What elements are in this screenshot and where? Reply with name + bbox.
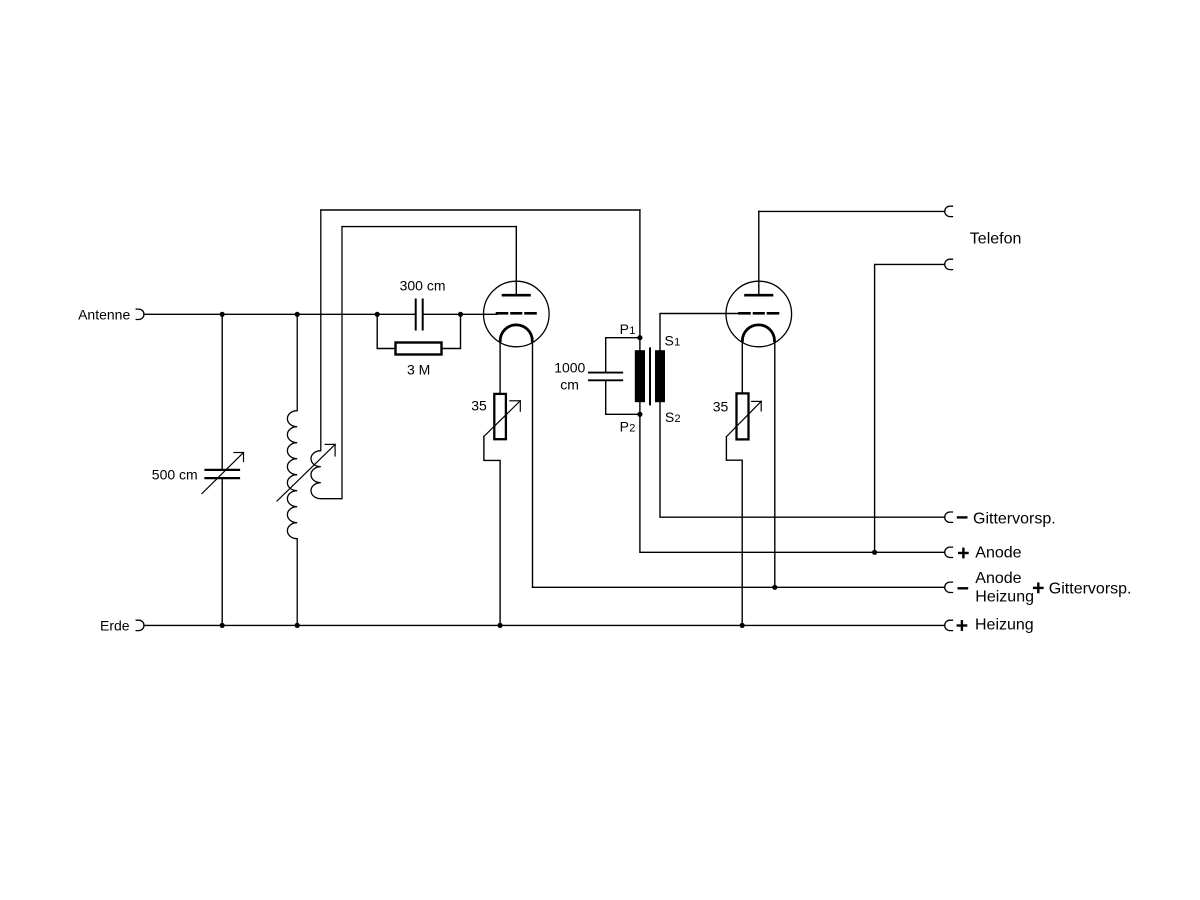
svg-text:Heizung: Heizung — [975, 617, 1034, 634]
triode V1 grid dashes — [497, 312, 536, 315]
triode V1 cathode arc — [500, 325, 532, 341]
terminal Antenne — [136, 309, 144, 319]
node junction ground / rheostat2 — [740, 623, 745, 628]
svg-text:S: S — [665, 409, 674, 425]
svg-text:35: 35 — [471, 397, 487, 413]
terminal Telefon top — [945, 206, 953, 216]
wire 1000cm upper branch to P1 — [606, 338, 640, 372]
wire secondary top lead to tube2 grid — [660, 314, 740, 351]
svg-text:1: 1 — [674, 336, 680, 348]
terminal +Heizung — [945, 620, 953, 630]
node junction P2 — [637, 412, 642, 417]
triode V2 envelope — [726, 281, 792, 347]
wire top run y210 from coil to P1 — [321, 209, 640, 211]
node junction P1 — [637, 335, 642, 340]
label plus Heizung — [958, 621, 966, 629]
wire RC left branch — [377, 314, 395, 348]
inductor L1 main coil — [287, 314, 297, 625]
svg-text:Anode: Anode — [975, 570, 1021, 587]
label minus Gittervorsp — [958, 516, 966, 518]
resistor 3 M — [396, 343, 442, 355]
label P1 — [620, 321, 636, 337]
arrow of variometer coil — [277, 444, 335, 501]
svg-text:Erde: Erde — [100, 617, 130, 633]
wire antenna line right of 300cm to grid — [423, 313, 497, 315]
svg-text:Gittervorsp.: Gittervorsp. — [1049, 581, 1132, 598]
transformer T1 core — [649, 348, 651, 404]
node junction antenna / coil — [295, 312, 300, 317]
terminal Telefon bottom — [945, 259, 953, 269]
triode V2 left filament lead — [741, 341, 743, 394]
terminal Erde — [136, 620, 144, 630]
svg-text:2: 2 — [675, 413, 681, 425]
wire tube1 filament to -Anode/Heizung line — [533, 586, 945, 588]
label P2 — [620, 419, 636, 435]
svg-text:cm: cm — [560, 377, 579, 393]
svg-text:P: P — [620, 419, 629, 435]
svg-text:35: 35 — [713, 398, 729, 414]
label S2 — [665, 409, 681, 425]
triode V2 anode lead — [758, 211, 760, 294]
wire 500cm lower lead — [221, 479, 223, 625]
wire RC right branch — [442, 314, 461, 348]
svg-text:1000: 1000 — [554, 360, 585, 376]
label minus Anode Heizung plus Gittervorsp — [959, 587, 967, 589]
node junction ground / 500cm — [220, 623, 225, 628]
triode V1 anode lead — [515, 227, 517, 295]
svg-text:500 cm: 500 cm — [152, 467, 198, 483]
node junction tube2 filament on -Anode/Heizung line — [772, 585, 777, 590]
wire transformer primary bottom lead to +Anode — [640, 402, 945, 552]
triode V1 left filament lead — [499, 341, 501, 394]
wire 500cm upper lead — [221, 314, 223, 469]
svg-text:Telefon: Telefon — [970, 231, 1022, 248]
node junction antenna / 500cm — [220, 312, 225, 317]
node junction ground / coil — [295, 623, 300, 628]
arrow of rheostat R1 — [484, 401, 520, 437]
svg-text:S: S — [665, 332, 674, 348]
svg-text:P: P — [620, 321, 629, 337]
triode V2 anode bar — [746, 294, 773, 297]
triode V2 right filament lead — [774, 341, 776, 588]
wire 1000cm lower branch to P2 — [606, 381, 640, 414]
svg-text:Antenne: Antenne — [78, 307, 130, 323]
triode V2 cathode arc — [742, 325, 774, 341]
svg-text:Anode: Anode — [975, 545, 1021, 562]
transformer T1 primary bar — [635, 350, 645, 402]
wire rheostat R1 slider step to ground — [484, 436, 500, 625]
wire ground / heater line — [144, 624, 945, 626]
node junction telefon return on +Anode line — [872, 550, 877, 555]
triode V2 grid dashes — [740, 312, 779, 315]
node junction antenna / RC right — [458, 312, 463, 317]
inductor L2 feedback coil — [311, 210, 342, 499]
svg-text:1: 1 — [629, 325, 635, 337]
wire secondary bottom lead to -Gittervorsp — [660, 402, 945, 517]
wire run y226 from coil bottom riser to tube1 anode — [342, 226, 516, 228]
node junction antenna / RC left — [375, 312, 380, 317]
terminal -Gittervorsp — [945, 512, 953, 522]
triode V1 envelope — [484, 281, 550, 347]
svg-text:2: 2 — [629, 423, 635, 435]
label S1 — [665, 332, 681, 348]
wire transformer primary top lead — [639, 210, 641, 350]
wire Telefon bottom terminal to +Anode line — [875, 264, 945, 552]
wire antenna line left — [144, 313, 415, 315]
terminal -Anode/Heizung — [945, 582, 953, 592]
triode V1 anode bar — [503, 294, 530, 297]
label plus Anode — [959, 549, 967, 557]
svg-text:Gittervorsp.: Gittervorsp. — [973, 511, 1056, 528]
wire tube2 anode to Telefon top terminal — [759, 210, 945, 212]
capacitor 1000 cm plates — [589, 373, 622, 381]
transformer T1 secondary bar — [655, 350, 665, 402]
arrow of variable capacitor 500 cm — [202, 453, 244, 494]
capacitor 300 cm plates — [416, 300, 423, 330]
svg-text:300 cm: 300 cm — [400, 278, 446, 294]
triode V1 right filament lead — [532, 341, 534, 588]
rheostat R2 35 body — [737, 393, 749, 439]
wire rheostat R2 slider step to ground — [726, 437, 742, 626]
node junction ground / rheostat1 — [498, 623, 503, 628]
arrow of rheostat R2 — [726, 401, 761, 436]
rheostat R1 35 body — [494, 394, 506, 439]
svg-text:Heizung: Heizung — [975, 588, 1034, 605]
terminal +Anode — [945, 547, 953, 557]
capacitor 500 cm variable plates — [206, 470, 240, 478]
svg-text:3 M: 3 M — [407, 361, 430, 377]
